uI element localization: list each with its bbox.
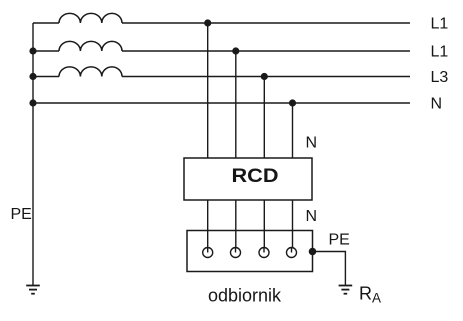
svg-text:odbiornik: odbiornik <box>208 286 282 306</box>
svg-text:L1: L1 <box>431 44 449 61</box>
inductor winding phase 3 <box>59 67 122 77</box>
wire L2 horizontal (phase 2 bus, labelled L1) <box>33 50 59 52</box>
junction node L3 star <box>29 73 36 80</box>
pin stub 3 <box>263 248 265 253</box>
wire tap L3 vertical <box>263 77 265 253</box>
wire N horizontal (neutral bus) <box>33 102 410 104</box>
junction node tap L1 <box>204 19 211 26</box>
pin stub 2 <box>235 248 237 253</box>
junction node tap L3 <box>261 73 268 80</box>
wire tap L1 vertical <box>207 23 209 253</box>
odbiornik load box <box>187 231 313 272</box>
svg-text:RCD: RCD <box>232 165 279 187</box>
junction node tap L2 <box>232 47 239 54</box>
junction node PE at load <box>309 248 317 256</box>
svg-text:PE: PE <box>11 206 32 223</box>
wire L1 horizontal (phase 1 bus) <box>33 22 59 24</box>
junction node L2 star <box>29 47 36 54</box>
RCD box U1 <box>184 158 312 200</box>
junction node N star <box>29 99 36 106</box>
svg-text:N: N <box>306 134 318 151</box>
wire L3 horizontal (phase 3 bus) <box>33 76 59 78</box>
svg-text:L3: L3 <box>431 69 449 86</box>
svg-text:N: N <box>431 96 443 113</box>
ground symbol left <box>26 286 40 294</box>
terminal pin 2 <box>231 248 241 258</box>
wire tap N vertical <box>292 103 294 253</box>
pin stub 4 <box>291 248 293 253</box>
wire PE right run <box>313 252 346 286</box>
svg-text:L1: L1 <box>431 16 449 33</box>
svg-text:PE: PE <box>329 231 350 248</box>
wire PE left vertical (star point to earth) <box>32 23 34 286</box>
terminal pin 3 <box>259 248 269 258</box>
terminal pin 4 <box>287 248 297 258</box>
inductor winding phase 2 <box>59 41 122 51</box>
ground symbol right RA <box>339 286 353 294</box>
pin stub 1 <box>207 248 209 253</box>
svg-text:N: N <box>306 208 318 225</box>
terminal pin 1 <box>203 248 213 258</box>
inductor winding phase 1 <box>59 13 122 23</box>
junction node tap N <box>289 99 296 106</box>
wire tap L2 vertical <box>235 51 237 253</box>
